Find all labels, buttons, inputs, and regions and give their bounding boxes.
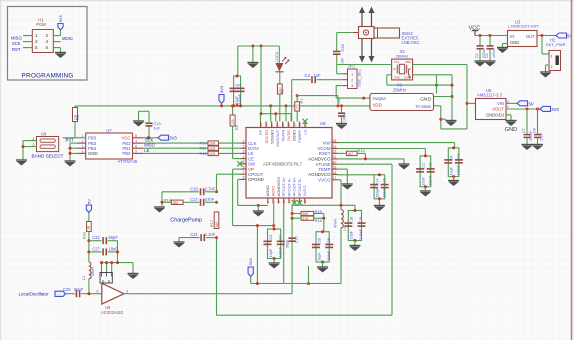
svg-text:100nF: 100nF [492, 47, 496, 58]
svg-text:L7805CD2T-HXY: L7805CD2T-HXY [508, 24, 539, 29]
svg-text:GND: GND [505, 127, 517, 133]
svg-text:VCC: VCC [121, 136, 130, 141]
svg-text:C8: C8 [533, 128, 537, 133]
svg-text:ChargePump: ChargePump [170, 218, 202, 224]
svg-text:LD: LD [303, 130, 308, 135]
svg-text:680: 680 [215, 221, 219, 227]
svg-text:10k: 10k [296, 104, 300, 110]
svg-text:3: 3 [243, 150, 245, 154]
svg-text:3: 3 [126, 289, 128, 293]
svg-text:VDD: VDD [405, 60, 411, 64]
svg-text:PGM: PGM [36, 22, 46, 27]
svg-text:3V3: 3V3 [219, 85, 224, 93]
svg-text:L2: L2 [82, 276, 86, 280]
svg-text:1nF: 1nF [341, 57, 345, 64]
svg-text:4: 4 [243, 155, 245, 159]
svg-text:30: 30 [287, 123, 291, 127]
svg-text:SCK: SCK [12, 41, 21, 46]
svg-text:9: 9 [266, 201, 270, 203]
svg-text:1: 1 [243, 139, 245, 143]
svg-text:2: 2 [551, 65, 553, 69]
svg-text:21: 21 [333, 155, 337, 159]
svg-text:C12: C12 [428, 162, 432, 169]
svg-text:BAND SELECT: BAND SELECT [32, 153, 64, 158]
svg-text:1nF: 1nF [314, 73, 322, 78]
svg-text:24: 24 [333, 139, 337, 143]
svg-text:4k7: 4k7 [348, 152, 354, 156]
svg-text:20R: 20R [209, 152, 216, 156]
svg-text:R7: R7 [300, 99, 304, 104]
svg-text:22: 22 [333, 150, 337, 154]
svg-text:VOUT: VOUT [492, 107, 504, 112]
svg-text:C14: C14 [375, 178, 379, 185]
svg-text:28: 28 [276, 123, 280, 127]
svg-text:10pF: 10pF [350, 230, 354, 239]
svg-text:1: 1 [35, 33, 38, 38]
svg-text:CPGND: CPGND [248, 177, 264, 182]
svg-text:R17: R17 [210, 220, 214, 227]
svg-text:R8: R8 [76, 115, 80, 120]
svg-text:100nF: 100nF [382, 187, 386, 198]
svg-text:0R: 0R [87, 225, 91, 230]
svg-text:31: 31 [292, 123, 296, 127]
svg-text:L1: L1 [343, 227, 347, 231]
svg-text:SW: SW [248, 162, 256, 167]
svg-text:16: 16 [303, 200, 307, 204]
svg-text:SDVDD: SDVDD [264, 130, 269, 144]
svg-text:100nF: 100nF [278, 246, 282, 257]
svg-text:DVDD: DVDD [286, 130, 291, 141]
svg-text:20R: 20R [209, 147, 216, 151]
svg-text:6: 6 [97, 289, 99, 293]
svg-text:3V3: 3V3 [169, 136, 177, 141]
svg-text:5V: 5V [529, 101, 534, 106]
svg-text:47nF: 47nF [205, 197, 215, 202]
svg-text:23: 23 [333, 145, 337, 149]
svg-text:OSC_SEL: OSC_SEL [357, 68, 362, 87]
svg-text:3V3: 3V3 [248, 258, 253, 266]
svg-text:12: 12 [282, 200, 286, 204]
svg-text:6: 6 [243, 165, 245, 169]
svg-text:VVCO: VVCO [302, 185, 307, 196]
svg-text:U6: U6 [41, 131, 47, 136]
svg-text:1: 1 [351, 71, 354, 76]
svg-text:26: 26 [265, 123, 269, 127]
svg-text:100nF: 100nF [238, 93, 242, 104]
svg-text:ATTINY45: ATTINY45 [118, 159, 138, 164]
svg-text:7: 7 [135, 139, 137, 143]
svg-text:2: 2 [46, 33, 49, 38]
svg-text:C26: C26 [327, 238, 331, 245]
svg-text:100nF: 100nF [359, 228, 363, 239]
svg-text:C25: C25 [317, 238, 321, 245]
svg-text:C1: C1 [475, 53, 479, 58]
svg-text:13: 13 [287, 200, 291, 204]
svg-text:AGNDVCO: AGNDVCO [276, 177, 281, 197]
svg-text:18: 18 [333, 171, 337, 175]
svg-text:C6: C6 [337, 99, 341, 104]
svg-text:C15: C15 [382, 178, 386, 185]
svg-text:5: 5 [243, 160, 245, 164]
svg-text:3: 3 [351, 83, 354, 88]
svg-text:1: 1 [551, 55, 553, 59]
svg-text:5V: 5V [86, 199, 91, 204]
svg-text:29: 29 [281, 123, 285, 127]
svg-text:20R: 20R [209, 142, 216, 146]
svg-text:47nH: 47nH [333, 219, 337, 228]
svg-text:56pF: 56pF [286, 239, 290, 248]
svg-text:VIN: VIN [497, 101, 504, 106]
svg-text:PROGRAMMING: PROGRAMMING [22, 72, 74, 79]
svg-text:C5: C5 [238, 84, 242, 89]
svg-text:10pF: 10pF [269, 248, 273, 257]
svg-text:EP: EP [258, 129, 263, 135]
svg-text:RFOUT-A-: RFOUT-A- [286, 177, 291, 196]
svg-text:ADF4350BCPZ-RL7: ADF4350BCPZ-RL7 [263, 162, 303, 167]
svg-text:8: 8 [135, 134, 137, 138]
svg-text:RFOUT-B+: RFOUT-B+ [292, 176, 297, 196]
svg-text:C9: C9 [450, 156, 454, 161]
svg-text:17: 17 [333, 176, 337, 180]
svg-text:C30: C30 [340, 43, 345, 51]
svg-text:Tri-State: Tri-State [415, 104, 432, 109]
svg-text:GND: GND [510, 40, 519, 45]
svg-text:C17: C17 [190, 197, 198, 202]
svg-text:C7: C7 [522, 128, 526, 133]
svg-text:MOSI: MOSI [62, 36, 73, 41]
svg-text:Output: Output [373, 96, 387, 101]
svg-text:LocalOscillator: LocalOscillator [19, 292, 50, 297]
svg-text:2: 2 [243, 145, 245, 149]
svg-text:R18: R18 [83, 232, 87, 239]
svg-text:2: 2 [351, 77, 354, 82]
svg-text:10pF: 10pF [317, 252, 321, 261]
svg-text:AVDD: AVDD [270, 186, 275, 197]
svg-text:DGND: DGND [292, 130, 297, 142]
svg-text:11: 11 [277, 200, 281, 203]
svg-text:U8: U8 [320, 121, 326, 126]
svg-text:C28: C28 [63, 287, 71, 292]
svg-text:3: 3 [35, 39, 38, 44]
svg-text:5: 5 [35, 45, 38, 50]
svg-text:25: 25 [259, 123, 263, 127]
svg-text:MISO: MISO [11, 35, 22, 40]
svg-text:100nF: 100nF [428, 175, 432, 186]
svg-text:26MHz: 26MHz [396, 54, 409, 59]
svg-text:REFIN: REFIN [280, 130, 285, 142]
svg-text:5: 5 [135, 150, 137, 154]
svg-text:LNB.OSC.: LNB.OSC. [402, 40, 421, 45]
svg-text:C24: C24 [278, 235, 282, 242]
svg-text:8: 8 [243, 176, 245, 180]
svg-text:2.7nF: 2.7nF [205, 186, 216, 191]
svg-text:R14: R14 [164, 197, 172, 202]
svg-text:6: 6 [46, 45, 49, 50]
svg-text:SDGND: SDGND [269, 130, 274, 144]
svg-text:4: 4 [46, 39, 49, 44]
svg-text:C2: C2 [485, 53, 489, 58]
svg-text:10uF: 10uF [450, 166, 454, 175]
svg-text:U7: U7 [106, 128, 112, 133]
svg-text:3V3: 3V3 [551, 107, 559, 112]
svg-text:R13: R13 [358, 148, 365, 153]
svg-text:SKY_PWR: SKY_PWR [546, 42, 566, 47]
svg-text:C16: C16 [190, 186, 198, 191]
svg-text:AGND: AGND [265, 185, 270, 196]
svg-text:OUT: OUT [526, 34, 536, 39]
svg-text:PB5: PB5 [88, 136, 97, 141]
svg-text:C21: C21 [190, 232, 198, 237]
svg-text:20: 20 [333, 161, 337, 165]
svg-text:MUXOUT: MUXOUT [275, 129, 280, 146]
svg-text:56R: 56R [302, 212, 309, 216]
svg-text:680: 680 [173, 201, 179, 205]
svg-text:32: 32 [298, 123, 302, 127]
svg-text:3V3: 3V3 [58, 15, 63, 23]
svg-text:C13: C13 [154, 121, 161, 126]
svg-text:51R: 51R [302, 217, 309, 221]
svg-text:R9: R9 [235, 125, 239, 130]
svg-text:100nF: 100nF [327, 250, 331, 261]
svg-text:10uF: 10uF [540, 132, 544, 141]
svg-text:RFOUT-B-: RFOUT-B- [297, 177, 302, 196]
svg-text:LOCK: LOCK [274, 51, 279, 62]
svg-text:GND: GND [394, 75, 400, 79]
svg-text:VVCO: VVCO [318, 178, 331, 183]
svg-text:R6: R6 [281, 89, 285, 94]
svg-text:TEMP: TEMP [318, 167, 330, 172]
svg-text:XC1: XC1 [394, 60, 400, 64]
svg-text:C23: C23 [269, 235, 273, 242]
svg-text:GND/ADJ: GND/ADJ [486, 113, 504, 118]
svg-text:25MHz: 25MHz [393, 87, 406, 92]
svg-text:10: 10 [271, 200, 275, 204]
svg-text:1.2nF: 1.2nF [205, 232, 216, 237]
svg-text:100nF: 100nF [457, 164, 461, 175]
svg-text:GND: GND [420, 97, 431, 103]
svg-text:AG303-63G: AG303-63G [101, 310, 123, 315]
svg-text:19: 19 [333, 165, 337, 169]
svg-text:Vref: Vref [323, 140, 332, 145]
svg-text:10uF: 10uF [421, 177, 425, 186]
svg-text:R12: R12 [200, 151, 207, 156]
svg-text:IN: IN [510, 34, 514, 39]
svg-text:1uF: 1uF [154, 126, 161, 130]
svg-text:56pF: 56pF [74, 287, 84, 292]
svg-text:C3: C3 [305, 73, 311, 78]
svg-text:39nH: 39nH [91, 267, 95, 276]
svg-text:100pF: 100pF [375, 187, 379, 198]
svg-text:PDBRF: PDBRF [297, 129, 302, 143]
svg-text:C20: C20 [295, 236, 299, 243]
svg-text:C27: C27 [92, 246, 100, 251]
svg-text:7: 7 [243, 171, 245, 175]
svg-text:RSET: RSET [319, 151, 331, 156]
svg-text:6: 6 [135, 144, 137, 148]
svg-text:AGNDVCO: AGNDVCO [308, 157, 331, 162]
svg-text:C10: C10 [457, 154, 461, 161]
svg-text:56pF: 56pF [109, 235, 119, 240]
svg-text:27: 27 [270, 123, 274, 127]
svg-text:AGNDVCO: AGNDVCO [308, 172, 331, 177]
svg-text:C11: C11 [421, 163, 425, 170]
svg-text:VDD: VDD [373, 103, 382, 108]
svg-text:C22: C22 [92, 235, 100, 240]
svg-text:C18: C18 [350, 217, 354, 224]
svg-text:AMS1117-3.3: AMS1117-3.3 [477, 93, 503, 98]
svg-text:100nF: 100nF [342, 112, 346, 122]
svg-text:C19: C19 [359, 217, 363, 224]
svg-text:PB0: PB0 [122, 151, 131, 156]
svg-text:RFOUT-A+: RFOUT-A+ [281, 176, 286, 196]
svg-text:GND: GND [88, 151, 98, 156]
svg-text:10k: 10k [231, 119, 235, 125]
svg-text:RST: RST [12, 47, 21, 52]
